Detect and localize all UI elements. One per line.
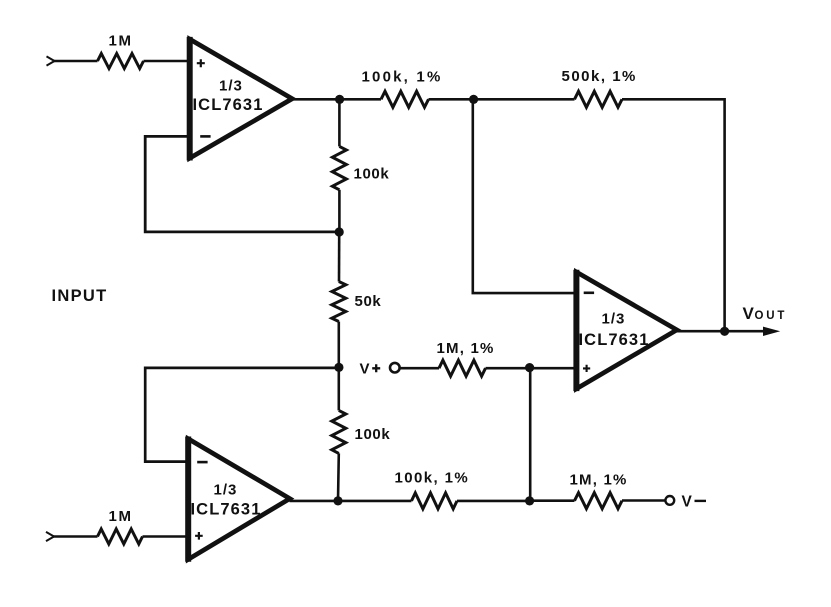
wire: R3 right and down to node H	[622, 99, 725, 331]
svg-text:1M: 1M	[109, 508, 133, 525]
wire: U1 output to node A	[292, 98, 340, 101]
label U1 1/3	[219, 78, 243, 95]
U1 pin marker +	[197, 59, 205, 67]
label R5 value 50k	[355, 293, 382, 310]
U3 pin marker −	[584, 291, 594, 294]
resistor R3 500k 1% (feedback)	[575, 91, 623, 107]
op-amp U3 1/3 ICL7631 (output)	[576, 270, 676, 391]
svg-text:100k: 100k	[355, 426, 391, 443]
svg-text:50k: 50k	[355, 293, 382, 310]
wire: node B to R3	[474, 98, 575, 101]
resistor R5 50k (vertical, middle)	[332, 282, 346, 322]
svg-text:100k, 1%: 100k, 1%	[395, 470, 470, 487]
node E (U2 output junction)	[333, 496, 342, 505]
resistor R9 1M 1% (to V−)	[575, 493, 623, 509]
node F (bottom junction)	[525, 496, 534, 505]
terminal V+ (open circle)	[390, 363, 400, 373]
wire: R8 to node F	[457, 500, 530, 503]
input terminal arrow (top)	[47, 56, 55, 65]
wire: node H to output arrow	[725, 330, 767, 333]
label INPUT	[52, 287, 108, 305]
wire: node G down to node F	[529, 368, 532, 501]
label U3 1/3	[602, 311, 626, 328]
wire: R1 to U1 non-inverting input	[144, 60, 190, 63]
label U2 ICL7631	[191, 501, 262, 519]
svg-text:V: V	[682, 493, 693, 510]
svg-text:1/3: 1/3	[602, 311, 626, 328]
node D (feedback tap junction)	[334, 363, 343, 372]
wire: U2 inverting input feedback loop	[145, 368, 339, 462]
svg-text:1/3: 1/3	[214, 482, 238, 499]
wire: node A down to R4	[338, 99, 341, 146]
svg-text:1M, 1%: 1M, 1%	[570, 472, 628, 489]
svg-text:1M: 1M	[109, 33, 133, 50]
svg-text:INPUT: INPUT	[52, 287, 108, 305]
label R9 value 1M, 1%	[570, 472, 628, 489]
svg-text:100k: 100k	[354, 166, 390, 183]
resistor R8 100k 1% (bottom)	[412, 493, 458, 509]
label VOUT	[743, 304, 788, 323]
label V−	[682, 493, 707, 510]
label R7 value 1M	[109, 508, 133, 525]
wire: bottom input to R7	[54, 535, 98, 538]
label U2 1/3	[214, 482, 238, 499]
VOUT arrowhead	[763, 327, 780, 336]
node B (top junction)	[469, 95, 478, 104]
svg-text:V: V	[743, 304, 755, 323]
op-amp U2 1/3 ICL7631 (bottom)	[188, 437, 290, 562]
wire: U3 output to node H	[677, 330, 725, 333]
label R3 value 500k, 1%	[562, 68, 637, 85]
resistor R4 100k (vertical, upper)	[332, 146, 346, 189]
wire: node B down to U3 inverting input	[473, 99, 577, 293]
U1 pin marker −	[200, 135, 210, 138]
wire: node E to R8	[338, 500, 412, 503]
terminal V− (open circle)	[665, 496, 674, 505]
label R6 value 100k	[355, 426, 391, 443]
wire: top input to R1	[54, 60, 98, 63]
svg-text:OUT: OUT	[755, 310, 788, 322]
svg-text:1/3: 1/3	[219, 78, 243, 95]
U2 pin marker +	[195, 532, 203, 540]
wire: node A to R2	[340, 98, 382, 101]
node A (U1 output junction)	[335, 95, 344, 104]
wire: R2 to node B	[429, 98, 474, 101]
svg-text:500k, 1%: 500k, 1%	[562, 68, 637, 85]
resistor R10 1M 1% (from V+)	[439, 360, 486, 376]
wire: R4 to node C	[338, 190, 341, 232]
label R1 value 1M	[109, 33, 133, 50]
wire: R7 to U2 non-inverting input	[143, 535, 189, 538]
wire: U2 output to node E	[290, 500, 339, 503]
resistor R1 1M (top input)	[98, 54, 144, 69]
svg-text:100k, 1%: 100k, 1%	[362, 69, 443, 86]
wire: V+ terminal to R10	[400, 367, 439, 370]
label R4 value 100k	[354, 166, 390, 183]
node H (VOUT junction)	[720, 327, 729, 336]
label R2 value 100k, 1%	[362, 69, 443, 86]
wire: R10 to node G	[486, 367, 530, 370]
node G (U3 non-inverting junction)	[525, 363, 534, 372]
wire: node D to R6	[337, 368, 340, 411]
label R10 value 1M, 1%	[437, 340, 495, 357]
wire: R5 to node D	[337, 322, 340, 368]
wire: node G to U3 non-inverting input	[530, 367, 577, 370]
label V+	[360, 361, 381, 378]
U2 pin marker −	[197, 461, 207, 464]
label U3 ICL7631	[579, 331, 650, 349]
resistor R7 1M (bottom input)	[98, 529, 143, 544]
U3 pin marker +	[583, 365, 590, 372]
svg-text:V: V	[360, 361, 370, 378]
svg-text:ICL7631: ICL7631	[193, 96, 264, 114]
wire: node C to R5	[338, 232, 341, 282]
svg-text:ICL7631: ICL7631	[579, 331, 650, 349]
label U1 ICL7631	[193, 96, 264, 114]
input terminal arrow (bottom)	[46, 532, 54, 541]
svg-text:1M, 1%: 1M, 1%	[437, 340, 495, 357]
resistor R6 100k (vertical, lower)	[332, 410, 346, 453]
label R8 value 100k, 1%	[395, 470, 470, 487]
op-amp U1 1/3 ICL7631 (top)	[190, 37, 293, 161]
wire: R9 to V− terminal	[622, 499, 665, 502]
resistor R2 100k 1% (top)	[381, 91, 429, 107]
svg-text:ICL7631: ICL7631	[191, 501, 262, 519]
wire: U1 inverting input feedback loop	[145, 136, 339, 232]
node C (U1 feedback junction)	[335, 227, 344, 236]
wire: node F to R9	[530, 499, 575, 502]
wire: R6 to node E	[337, 453, 340, 501]
